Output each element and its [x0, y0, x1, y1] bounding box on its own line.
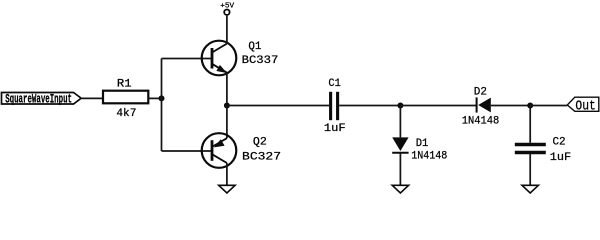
ground below C2: [522, 185, 538, 193]
svg-text:4k7: 4k7: [116, 108, 136, 120]
wire node to Q2 emitter: [226, 106, 228, 139]
wire node B to D2: [400, 105, 476, 107]
node A junction: [159, 95, 165, 101]
diode D1: [392, 137, 408, 152]
node B junction: [397, 103, 403, 109]
svg-text:C1: C1: [328, 78, 341, 90]
svg-text:SquareWaveInput: SquareWaveInput: [5, 92, 72, 106]
svg-text:D1: D1: [416, 138, 429, 150]
svg-text:1uF: 1uF: [324, 123, 346, 135]
capacitor C2: [515, 145, 546, 153]
svg-text:BC337: BC337: [242, 55, 279, 67]
svg-text:Q2: Q2: [253, 137, 267, 149]
svg-text:Out: Out: [575, 100, 595, 115]
wire input flag to R1: [82, 97, 103, 99]
output flag Out: [567, 97, 599, 114]
svg-text:1uF: 1uF: [550, 152, 572, 164]
wire D2 to node C: [491, 105, 530, 107]
transistor Q1: [202, 41, 237, 76]
svg-text:1N4148: 1N4148: [462, 115, 500, 127]
wire node C to Out flag: [530, 105, 567, 107]
transistor Q2: [202, 133, 237, 168]
wire to Q2 base: [162, 150, 214, 152]
wire node to C1: [227, 105, 329, 107]
wire D1 to ground: [399, 153, 401, 186]
capacitor C1: [331, 92, 338, 120]
svg-text:D2: D2: [474, 87, 487, 99]
svg-text:R1: R1: [117, 78, 132, 90]
ground below D1: [392, 185, 408, 193]
power +5V: [220, 3, 234, 15]
diode D2: [477, 97, 491, 112]
node emitter junction: [224, 103, 230, 109]
resistor R1: [103, 91, 148, 104]
svg-text:BC327: BC327: [242, 151, 281, 163]
wire C2 to ground: [529, 154, 531, 185]
ground below Q2: [219, 185, 235, 193]
svg-text:1N4148: 1N4148: [411, 151, 447, 163]
wire Q1 emitter to node: [226, 73, 228, 106]
wire +5V to Q1 collector: [226, 16, 228, 44]
svg-text:C2: C2: [552, 137, 565, 149]
svg-text:Q1: Q1: [248, 41, 261, 53]
node C junction: [527, 103, 533, 109]
wire Q2 collector to ground: [226, 163, 228, 185]
svg-text:+5V: +5V: [220, 3, 234, 11]
wire node B down to D1: [399, 106, 401, 138]
wire C1 to node B: [339, 105, 400, 107]
wire node C down to C2: [529, 106, 531, 143]
wire to Q1 base: [162, 58, 213, 60]
wire base bus vertical: [161, 59, 163, 152]
input flag SquareWaveInput: [2, 92, 82, 106]
wire R1 to node A: [148, 97, 161, 99]
